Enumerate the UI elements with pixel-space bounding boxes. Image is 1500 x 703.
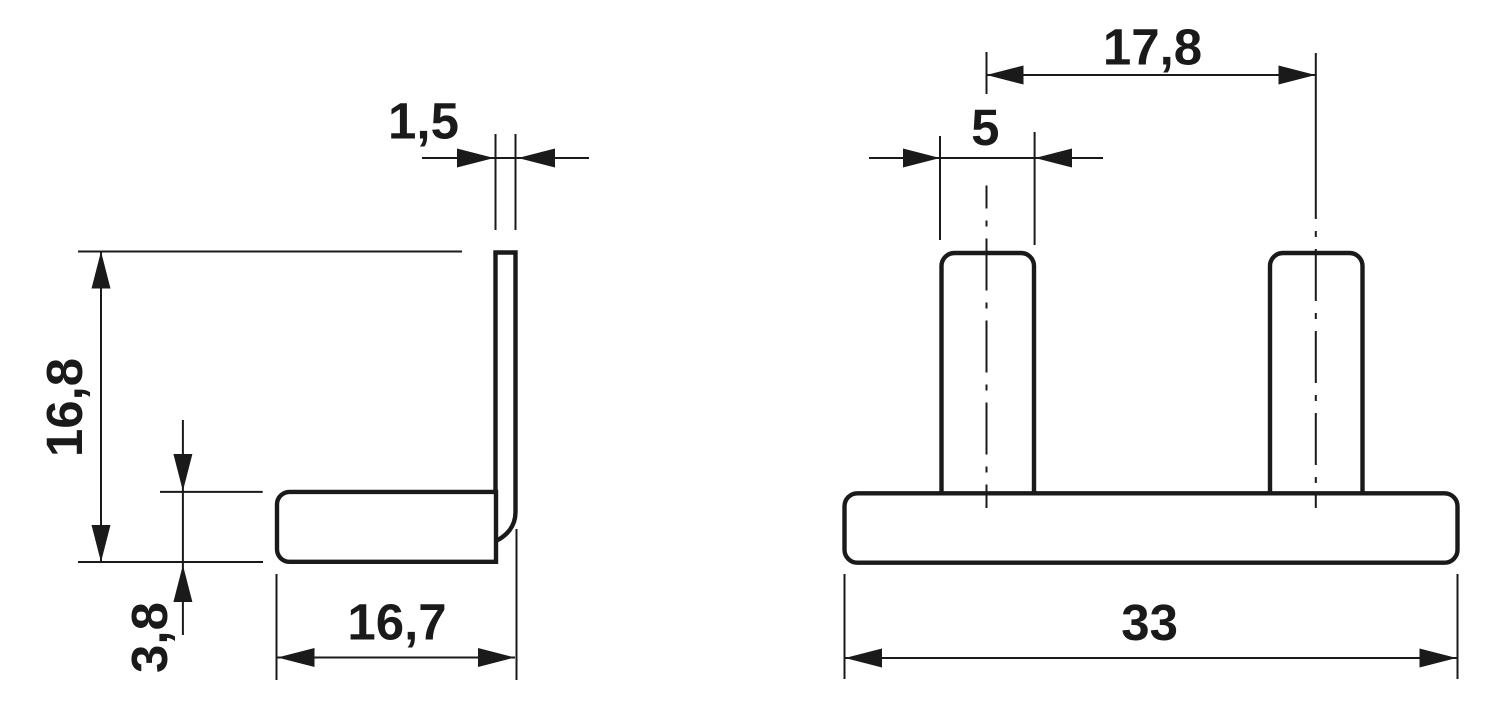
dimension 3,8: lower arrowhead: [173, 565, 192, 602]
dimension 33: dimension line: [845, 657, 1457, 659]
svg-text:3,8: 3,8: [121, 602, 178, 673]
dimension 16,7: left arrowhead: [278, 648, 315, 667]
dimension 16,7: left extension line: [276, 574, 278, 680]
dimension 5: right arrowhead: [1035, 149, 1072, 168]
left view: L-profile wall outline: [496, 253, 516, 541]
dimension 33: left extension line: [844, 574, 846, 679]
dimension 1,5: dimension line: [422, 157, 589, 159]
dimension 1,5: left extension line: [495, 134, 497, 230]
dimension 1,5: right extension line: [515, 134, 517, 230]
dimension 17,8: left extension line: [986, 52, 988, 94]
svg-text:1,5: 1,5: [388, 93, 459, 150]
dimension 16,8: top extension line: [78, 251, 462, 253]
dimension 16,8: bottom arrowhead: [92, 525, 111, 562]
right view: left pin outline: [942, 253, 1035, 492]
right view: base bar outline: [845, 493, 1458, 562]
dimension 16,7: dimension line: [278, 657, 516, 659]
dimension 16,7: right extension line: [516, 529, 518, 680]
svg-text:33: 33: [1121, 594, 1178, 651]
right view: left pin center line (dash-dot): [986, 186, 988, 509]
dimension 33: right arrowhead: [1420, 649, 1457, 668]
dimension 1,5: left arrowhead: [457, 149, 494, 168]
dimension 17,8: dimension line: [987, 74, 1316, 76]
dimension 33: right extension line: [1457, 574, 1459, 679]
dimension 16,8: bottom extension line: [78, 561, 263, 563]
dimension 5: left arrowhead: [903, 149, 940, 168]
svg-text:16,7: 16,7: [347, 594, 446, 651]
dimension 16,7: right arrowhead: [478, 648, 515, 667]
dimension 16,8: top arrowhead: [92, 252, 111, 289]
left view: L-profile foot outline: [277, 492, 496, 562]
right view: right pin center line (dash-dot): [1315, 201, 1317, 508]
dimension 5: dimension line: [869, 157, 1103, 159]
svg-text:5: 5: [971, 99, 999, 156]
dimension 17,8: left arrowhead: [987, 66, 1024, 85]
right view: right pin center line solid upper part: [1315, 53, 1317, 201]
dimension 1,5: right arrowhead: [518, 149, 555, 168]
svg-text:17,8: 17,8: [1103, 19, 1202, 76]
dimension 16,8: dimension line: [100, 252, 102, 562]
dimension 5: right extension line: [1034, 132, 1036, 245]
dimension 17,8: right arrowhead: [1279, 66, 1316, 85]
dimension 3,8: upper extension line: [160, 491, 263, 493]
dimension 3,8: dimension line: [182, 420, 184, 635]
dimension 3,8: upper arrowhead: [173, 454, 192, 491]
dimension 5: left extension line: [939, 136, 941, 240]
svg-text:16,8: 16,8: [36, 358, 93, 457]
dimension 33: left arrowhead: [845, 649, 882, 668]
right view: right pin outline: [1270, 253, 1363, 492]
